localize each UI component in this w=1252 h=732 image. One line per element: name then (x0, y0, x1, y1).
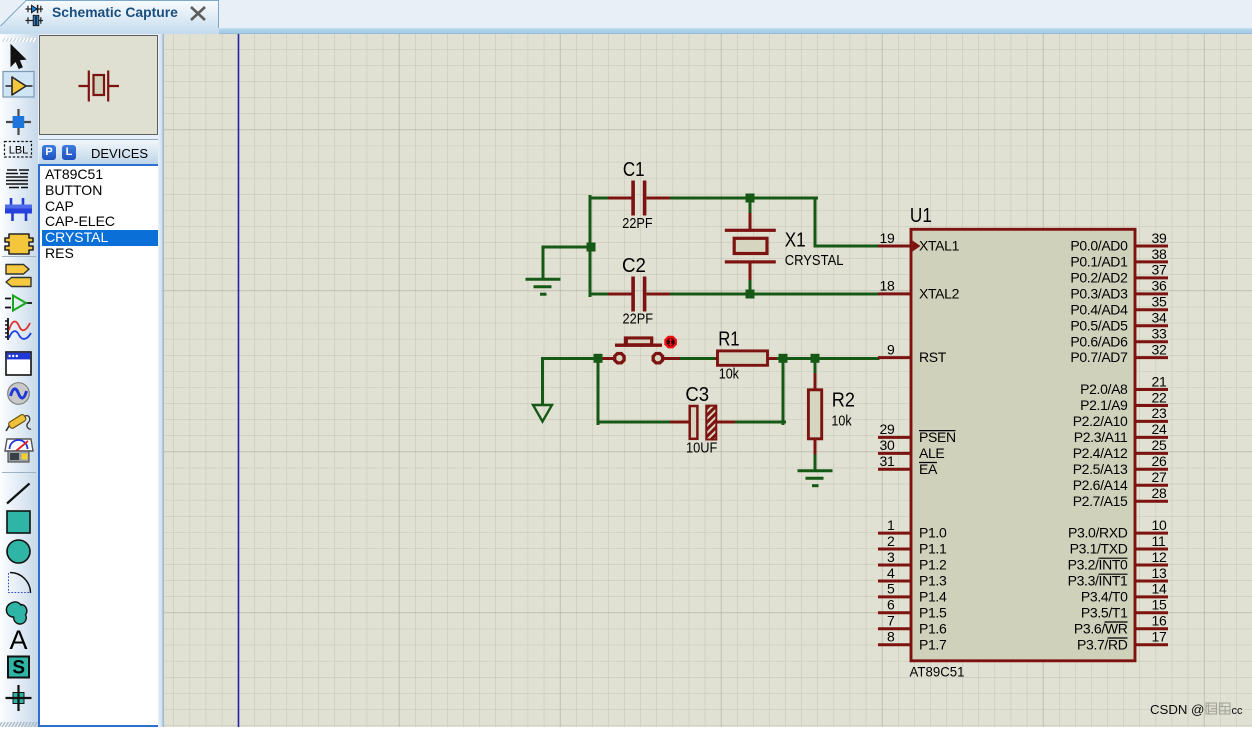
toolbar: 2d line (7, 484, 30, 504)
ground near C2 (526, 279, 561, 294)
toolbar: device pin (5, 299, 32, 308)
pin 27 P2.6/A14 (1073, 469, 1168, 493)
svg-text:P1.1: P1.1 (919, 541, 947, 557)
svg-text:3: 3 (887, 549, 895, 565)
pin 10 P3.0/RXD (1068, 517, 1168, 541)
svg-text:25: 25 (1152, 437, 1167, 453)
wire ground1 branch (543, 246, 591, 249)
svg-text:AT89C51: AT89C51 (910, 663, 965, 679)
svg-text:P2.1/A9: P2.1/A9 (1080, 397, 1128, 413)
svg-text:14: 14 (1152, 581, 1167, 597)
wire down to C3 row left (597, 357, 600, 424)
svg-text:P2.4/A12: P2.4/A12 (1073, 445, 1128, 461)
svg-text:P1.6: P1.6 (919, 620, 947, 636)
svg-text:33: 33 (1152, 326, 1167, 342)
pin 26 P2.5/A13 (1073, 453, 1168, 477)
svg-text:P2.3/A11: P2.3/A11 (1074, 429, 1128, 445)
pin 33 P0.6/AD6 (1070, 326, 1168, 350)
pin 21 P2.0/A8 (1080, 373, 1168, 397)
svg-text:10: 10 (1152, 517, 1167, 533)
pin 18 XTAL2 (878, 278, 960, 302)
svg-text:cc: cc (1232, 705, 1244, 717)
svg-text:P1.0: P1.0 (919, 525, 947, 541)
svg-text:P2.7/A15: P2.7/A15 (1073, 493, 1128, 509)
svg-text:4: 4 (887, 565, 895, 581)
pin 13 P3.3/INT1 (1068, 565, 1168, 589)
pin 28 P2.7/A15 (1073, 485, 1168, 509)
svg-text:P1.2: P1.2 (919, 557, 947, 573)
svg-text:PSEN: PSEN (919, 429, 956, 445)
svg-text:P3.2/INT0: P3.2/INT0 (1068, 557, 1128, 573)
pin 39 P0.0/AD0 (1070, 230, 1168, 254)
pin 36 P0.3/AD3 (1070, 278, 1168, 302)
pin 25 P2.4/A12 (1073, 437, 1168, 461)
capacitor C1 (608, 158, 670, 232)
svg-text:29: 29 (880, 421, 895, 437)
toolbar: bus (11, 198, 26, 221)
svg-text:31: 31 (880, 453, 895, 469)
sheet border (238, 34, 240, 727)
svg-text:EA: EA (919, 461, 938, 477)
pin 6 P1.5 (878, 597, 947, 621)
svg-text:7: 7 (887, 613, 895, 629)
wire R2 top (814, 359, 817, 375)
capacitor C3 (electrolytic) (670, 383, 735, 457)
wire R2 bottom to ground (814, 453, 817, 470)
toolbar: voltage probe (6, 421, 12, 431)
pin 24 P2.3/A11 (1074, 421, 1168, 445)
pin 34 P0.5/AD5 (1070, 310, 1168, 334)
watermark CSDN @lingdu cc (1150, 702, 1243, 717)
svg-text:XTAL2: XTAL2 (919, 286, 960, 302)
resistor R2 (808, 373, 855, 455)
pin 29 PSEN (878, 421, 956, 445)
toolbar: component mode (selected) (3, 72, 34, 98)
toolbar: tape/window (6, 352, 31, 375)
pin 17 P3.7/RD (1077, 629, 1168, 653)
pin 31 EA (878, 453, 938, 477)
svg-text:P3.5/T1: P3.5/T1 (1081, 604, 1128, 620)
toolbar: graph (7, 318, 9, 340)
svg-text:P2.2/A10: P2.2/A10 (1073, 413, 1128, 429)
svg-text:P3.7/RD: P3.7/RD (1077, 636, 1128, 652)
svg-text:P1.5: P1.5 (919, 604, 947, 620)
pin 38 P0.1/AD1 (1070, 246, 1168, 270)
toolbar: 2d circle (7, 540, 30, 563)
pin 23 P2.2/A10 (1073, 405, 1168, 429)
node junction (594, 354, 603, 363)
svg-text:21: 21 (1152, 373, 1167, 389)
button interactive marker (665, 337, 675, 347)
svg-text:13: 13 (1152, 565, 1167, 581)
svg-text:32: 32 (1152, 341, 1167, 357)
svg-text:24: 24 (1152, 421, 1167, 437)
svg-text:C2: C2 (622, 254, 646, 277)
capacitor C2 (608, 254, 670, 328)
pin 11 P3.1/TXD (1070, 533, 1168, 557)
svg-text:26: 26 (1152, 453, 1167, 469)
svg-text:30: 30 (880, 437, 895, 453)
wire C3 right to node (735, 421, 785, 424)
wire RST row left (543, 357, 600, 360)
svg-text:P3.1/TXD: P3.1/TXD (1070, 541, 1128, 557)
toolbar: 2d arc (10, 573, 31, 594)
toolbar: 2d closed path (6, 602, 26, 624)
svg-text:P0.0/AD0: P0.0/AD0 (1070, 238, 1128, 254)
svg-text:22PF: 22PF (622, 216, 652, 232)
preview crystal symbol (79, 71, 120, 102)
svg-text:P0.5/AD5: P0.5/AD5 (1070, 317, 1128, 333)
pin 2 P1.1 (878, 533, 947, 557)
svg-text:C1: C1 (623, 158, 645, 181)
svg-text:10k: 10k (719, 366, 740, 382)
pin 35 P0.4/AD4 (1070, 294, 1168, 318)
pin 14 P3.4/T0 (1081, 581, 1168, 605)
pin 37 P0.2/AD2 (1070, 262, 1168, 286)
button (push switch) (601, 336, 680, 363)
toolbar: selection arrow (11, 45, 26, 69)
svg-text:28: 28 (1152, 485, 1167, 501)
svg-text:P2.0/A8: P2.0/A8 (1080, 381, 1128, 397)
svg-text:16: 16 (1152, 613, 1167, 629)
svg-text:U1: U1 (910, 204, 932, 227)
resistor R1 (715, 327, 777, 382)
pin 3 P1.2 (878, 549, 947, 573)
svg-text:P0.1/AD1: P0.1/AD1 (1070, 254, 1128, 270)
pin 30 ALE (878, 437, 944, 461)
wire button to R1 (679, 357, 715, 360)
pin 12 P3.2/INT0 (1068, 549, 1168, 573)
svg-text:X1: X1 (785, 229, 806, 252)
wire left vertical C1-C2 (589, 197, 592, 296)
op chip U1 AT89C51 body (911, 229, 1135, 661)
svg-text:11: 11 (1152, 533, 1166, 549)
svg-text:P1.7: P1.7 (919, 636, 947, 652)
svg-text:R2: R2 (832, 389, 855, 412)
svg-text:17: 17 (1152, 629, 1167, 645)
toolbar: current probe (5, 439, 33, 451)
toolbar: text script (6, 170, 29, 188)
svg-text:1: 1 (887, 517, 895, 533)
svg-text:5: 5 (887, 581, 895, 597)
pin 19 XTAL1 (878, 230, 960, 254)
toolbar: subcircuit (5, 234, 33, 254)
svg-text:S: S (12, 658, 25, 679)
svg-text:P0.3/AD3: P0.3/AD3 (1070, 286, 1128, 302)
toolbar: 2d symbol (8, 657, 29, 678)
svg-text:38: 38 (1152, 246, 1167, 262)
svg-text:35: 35 (1152, 294, 1167, 310)
svg-text:P0.7/AD7: P0.7/AD7 (1070, 349, 1128, 365)
svg-text:12: 12 (1152, 549, 1167, 565)
svg-text:XTAL1: XTAL1 (919, 238, 960, 254)
toolbar: generator (8, 383, 30, 405)
svg-text:19: 19 (880, 230, 895, 246)
ground terminal arrow at RST row (533, 405, 552, 422)
svg-text:36: 36 (1152, 278, 1167, 294)
toolbar: 2d box (7, 511, 30, 533)
pin 16 P3.6/WR (1074, 613, 1168, 637)
pin 1 P1.0 (878, 517, 947, 541)
svg-text:P1.3: P1.3 (919, 573, 947, 589)
svg-text:10UF: 10UF (686, 441, 717, 457)
node junction (746, 290, 755, 299)
svg-text:CRYSTAL: CRYSTAL (785, 253, 844, 269)
svg-text:34: 34 (1152, 310, 1167, 326)
svg-text:8: 8 (887, 629, 895, 645)
toolbar: junction dot (6, 109, 31, 135)
pin 9 RST (878, 341, 947, 365)
svg-text:RST: RST (919, 349, 947, 365)
svg-text:18: 18 (880, 278, 895, 294)
pin 15 P3.5/T1 (1081, 597, 1168, 621)
pin 5 P1.4 (878, 581, 947, 605)
svg-text:6: 6 (887, 597, 895, 613)
svg-text:LBL: LBL (9, 145, 29, 157)
wire XTAL2 net bottom (590, 293, 608, 296)
svg-text:P3.3/INT1: P3.3/INT1 (1068, 573, 1128, 589)
svg-text:P0.6/AD6: P0.6/AD6 (1070, 333, 1128, 349)
node junction (746, 194, 755, 203)
svg-text:P3.6/WR: P3.6/WR (1074, 620, 1128, 636)
wire right corner to XTAL1 (814, 198, 817, 246)
toolbar: wire label (5, 142, 32, 158)
pin 4 P1.3 (878, 565, 947, 589)
svg-text:9: 9 (887, 341, 895, 357)
XTAL1 clock mark (913, 241, 921, 252)
svg-text:P3.4/T0: P3.4/T0 (1081, 589, 1128, 605)
svg-text:2: 2 (887, 533, 895, 549)
svg-text:15: 15 (1152, 597, 1167, 613)
svg-text:A: A (9, 625, 27, 655)
svg-text:P2.6/A14: P2.6/A14 (1073, 477, 1128, 493)
pin 32 P0.7/AD7 (1070, 341, 1168, 365)
node junction (779, 354, 788, 363)
node junction (811, 354, 820, 363)
svg-text:P1.4: P1.4 (919, 589, 947, 605)
svg-text:P3.0/RXD: P3.0/RXD (1068, 525, 1128, 541)
toolbar: terminal (6, 265, 29, 275)
svg-text:CSDN @: CSDN @ (1150, 702, 1204, 717)
pin 8 P1.7 (878, 629, 947, 653)
crystal X1 (725, 198, 844, 294)
pin 22 P2.1/A9 (1080, 389, 1168, 413)
svg-text:39: 39 (1152, 230, 1167, 246)
svg-text:P0.2/AD2: P0.2/AD2 (1070, 270, 1128, 286)
svg-text:22: 22 (1152, 389, 1167, 405)
svg-text:10k: 10k (831, 414, 852, 430)
svg-text:R1: R1 (718, 327, 739, 350)
svg-text:C3: C3 (685, 383, 709, 406)
toolbar: 2d marker (13, 693, 24, 704)
node junction (587, 243, 596, 252)
svg-text:ALE: ALE (919, 445, 944, 461)
svg-text:P2.5/A13: P2.5/A13 (1073, 461, 1128, 477)
wire R1 to chip RST (776, 357, 878, 360)
wire XTAL1 net top (590, 197, 608, 200)
ground below R2 (798, 471, 833, 486)
svg-text:23: 23 (1152, 405, 1167, 421)
svg-text:P0.4/AD4: P0.4/AD4 (1070, 301, 1128, 317)
svg-text:37: 37 (1152, 262, 1167, 278)
svg-text:22PF: 22PF (623, 312, 654, 328)
pin 7 P1.6 (878, 613, 947, 637)
svg-text:27: 27 (1152, 469, 1167, 485)
